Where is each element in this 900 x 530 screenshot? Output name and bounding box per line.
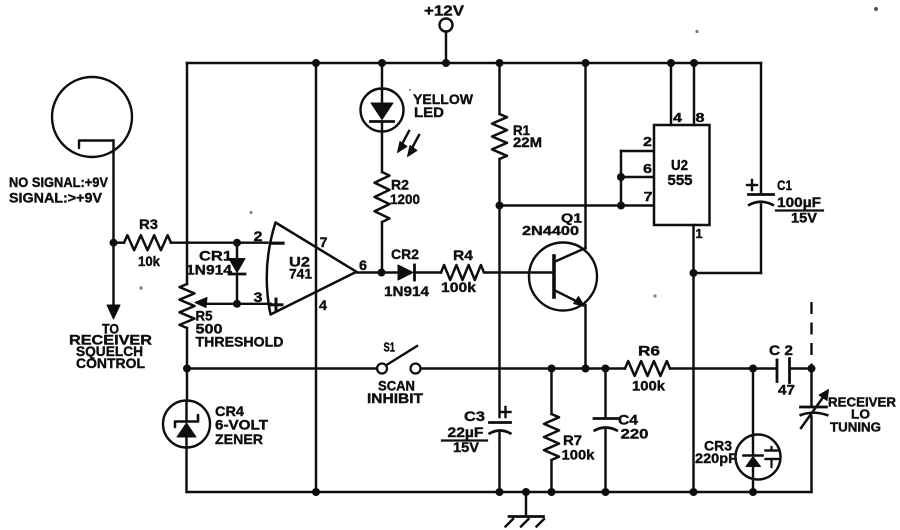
label op-amp minus input — [271, 242, 284, 245]
node R7 bottom at ground rail — [548, 488, 556, 496]
wire arrow to receiver squelch control — [107, 243, 120, 319]
svg-text:10k: 10k — [138, 253, 160, 269]
resistor R7 — [544, 369, 559, 493]
label ZENER — [215, 431, 263, 447]
label pin 8 (555) — [696, 110, 705, 125]
node C2 right junction — [808, 365, 816, 373]
svg-text:1: 1 — [696, 226, 703, 241]
svg-text:ZENER: ZENER — [215, 431, 263, 447]
svg-text:NO SIGNAL:+9V: NO SIGNAL:+9V — [9, 174, 109, 190]
power terminal +12V — [440, 19, 453, 64]
label pin 2 — [254, 228, 263, 244]
label 220 (C4) — [621, 426, 649, 442]
svg-text:47: 47 — [778, 382, 795, 398]
diode CR1 — [229, 243, 245, 304]
node R7 top at scan row — [548, 365, 556, 373]
svg-text:100k: 100k — [441, 279, 476, 295]
svg-text:741: 741 — [289, 266, 312, 282]
label LED light arrow 2 — [408, 135, 420, 157]
label 100k (R6) — [632, 378, 665, 394]
label CR1 — [199, 248, 232, 264]
variable capacitor receiver LO tuning — [800, 369, 829, 493]
svg-text:22M: 22M — [513, 134, 542, 150]
wire op-amp pin3 input — [195, 298, 271, 308]
node LED top at +12V rail — [378, 59, 386, 67]
label Q1 — [561, 211, 582, 226]
svg-text:TUNING: TUNING — [830, 420, 881, 435]
label LED — [414, 104, 444, 120]
node op-amp pin7 at +12V rail — [312, 59, 320, 67]
node C4 top at scan row — [602, 365, 610, 373]
resistor R2 — [375, 172, 390, 273]
node CR3 bottom at ground rail — [749, 488, 757, 496]
resistor R3 — [114, 235, 268, 250]
node 555 pin1 at ground rail — [690, 488, 698, 496]
label C1 — [777, 178, 792, 193]
svg-text:R4: R4 — [453, 247, 473, 263]
label SQUELCH — [76, 344, 143, 359]
label LO — [851, 407, 870, 422]
wire dashed line to receiver LO — [810, 302, 812, 369]
svg-text:4: 4 — [673, 110, 683, 125]
wire bottom ground rail — [187, 491, 812, 493]
node 555 pin1/C1 junction — [690, 269, 698, 277]
node R1 top at +12V rail — [496, 59, 504, 67]
label C1 plus polarity — [747, 180, 757, 190]
svg-text:220: 220 — [621, 426, 649, 442]
svg-text:SIGNAL:>+9V: SIGNAL:>+9V — [9, 190, 103, 206]
label 555 — [668, 173, 693, 189]
label pin 4 (555) — [673, 110, 683, 125]
svg-text:15V: 15V — [453, 439, 480, 455]
svg-text:8: 8 — [696, 110, 705, 125]
label R1 — [513, 122, 530, 138]
varactor diode CR3 — [736, 369, 781, 493]
label 500 — [196, 321, 223, 337]
svg-text:220pF: 220pF — [695, 450, 737, 466]
node R5 bottom / scan row junction — [183, 365, 191, 373]
svg-text:S1: S1 — [384, 340, 396, 355]
label CR2 — [391, 246, 419, 262]
label C3 — [464, 408, 485, 424]
resistor R1 — [492, 63, 507, 206]
label CONTROL — [76, 356, 145, 371]
svg-text:2: 2 — [254, 228, 263, 244]
label SIGNAL:>+9V — [9, 190, 103, 206]
label 100k (R4) — [441, 279, 476, 295]
label pin 7 (555) — [644, 189, 653, 204]
label pin 4 — [319, 297, 327, 313]
wire 555 pin 1 to ground rail — [692, 225, 694, 492]
connector J1 receiver squelch input — [52, 77, 132, 243]
label INHIBIT — [367, 391, 424, 406]
node 555 pin 2-6-7 junction — [617, 202, 625, 210]
label U2 (op-amp) — [289, 254, 310, 270]
label 6-VOLT — [215, 417, 268, 433]
label pin 6 (555) — [643, 161, 652, 176]
svg-text:C1: C1 — [777, 178, 792, 193]
label R2 — [391, 177, 409, 193]
svg-text:1N914: 1N914 — [384, 283, 429, 299]
label 1200 — [390, 191, 420, 207]
wire +12V top supply rail — [187, 62, 761, 64]
label pin 7 — [320, 234, 328, 250]
label TO — [102, 322, 119, 337]
label 2N4400 — [522, 223, 579, 238]
label CR4 — [215, 403, 244, 419]
node squelch input junction — [110, 239, 118, 247]
svg-text:THRESHOLD: THRESHOLD — [196, 335, 284, 350]
label R3 — [139, 216, 158, 232]
wire scan speckles — [139, 7, 878, 298]
wire 555 pin2/6 link — [621, 151, 654, 206]
op-amp U2 741 triangle — [267, 223, 357, 315]
svg-text:2: 2 — [643, 134, 652, 149]
svg-text:2N4400: 2N4400 — [522, 223, 579, 238]
label YELLOW — [413, 91, 474, 107]
label 100uF — [776, 195, 823, 211]
svg-text:15V: 15V — [791, 211, 817, 226]
node CR1 cathode junction — [233, 300, 241, 308]
svg-text:4: 4 — [319, 297, 327, 313]
label 22uF — [442, 424, 487, 441]
label 22M — [513, 134, 542, 150]
label NO SIGNAL:+9V — [9, 174, 109, 190]
node 555 pin8 at +12V rail — [690, 59, 698, 67]
LED yellow indicator — [361, 63, 404, 172]
label 1N914 (CR1) — [186, 262, 232, 278]
label C4 — [618, 412, 638, 428]
capacitor C3 22uF — [489, 423, 512, 493]
capacitor C1 100uF — [694, 63, 775, 273]
node 555 pin4 at +12V rail — [667, 59, 675, 67]
svg-text:LED: LED — [414, 104, 444, 120]
label op-amp plus input — [270, 299, 282, 311]
svg-text:INHIBIT: INHIBIT — [367, 391, 424, 406]
wire op-amp supply pins 7 and 4 vertical — [315, 63, 317, 492]
svg-text:1N914: 1N914 — [186, 262, 232, 278]
transistor Q1 2N4400 — [529, 63, 597, 369]
label 47 — [778, 382, 795, 398]
node CR1 anode junction — [233, 239, 241, 247]
label 15V (C1) — [791, 211, 817, 226]
label pin 6 — [359, 257, 367, 273]
node CR3 top at scan row — [749, 365, 757, 373]
node +12V at top rail — [442, 59, 450, 67]
svg-text:R3: R3 — [139, 216, 158, 232]
svg-text:100k: 100k — [632, 378, 665, 394]
node Q1 collector at +12V rail — [582, 59, 590, 67]
label LED light arrow 1 — [398, 131, 410, 153]
node C3 bottom at ground rail — [496, 488, 504, 496]
label R5 — [196, 308, 213, 324]
resistor R6 — [625, 361, 776, 376]
label pin 3 — [254, 289, 263, 305]
label 220pF — [695, 450, 737, 466]
wire left branch from +12V rail down to R5 — [186, 63, 188, 284]
switch S1 scan inhibit — [377, 346, 421, 374]
svg-text:1200: 1200 — [390, 191, 420, 207]
label C3 plus polarity — [501, 407, 511, 417]
node R2 bottom at op-amp output — [378, 269, 386, 277]
label R4 — [453, 247, 473, 263]
label pin 1 (555) — [696, 226, 703, 241]
svg-text:100µF: 100µF — [777, 195, 821, 210]
svg-text:22µF: 22µF — [448, 424, 484, 440]
wire R1/C3 vertical down to C3 — [498, 206, 500, 418]
node C4 bottom at ground rail — [602, 488, 610, 496]
svg-text:100k: 100k — [562, 447, 595, 463]
svg-text:555: 555 — [668, 173, 693, 189]
resistor R4 — [441, 265, 554, 280]
label S1 — [384, 340, 396, 355]
label 1N914 (CR2) — [384, 283, 429, 299]
potentiometer R5 — [180, 284, 195, 369]
capacitor C2 47 — [777, 359, 812, 383]
svg-text:CR2: CR2 — [391, 246, 419, 262]
node 555 pin6 junction — [617, 173, 625, 181]
label 741 — [289, 266, 312, 282]
label TUNING — [830, 420, 881, 435]
wire scan row left segment — [187, 367, 377, 369]
wire scan row middle segment — [421, 367, 626, 369]
label R7 — [563, 432, 582, 448]
diode CR2 — [398, 265, 441, 280]
wire 555 pin 4 — [670, 63, 672, 125]
svg-text:6: 6 — [359, 257, 367, 273]
IC U2 555 timer body — [654, 125, 710, 225]
svg-text:U2: U2 — [671, 158, 688, 174]
node Q1 emitter at scan row — [582, 365, 590, 373]
label U2 (555) — [671, 158, 688, 174]
label pin 2 (555) — [643, 134, 652, 149]
label R6 — [638, 343, 660, 359]
label THRESHOLD — [196, 335, 284, 350]
capacitor C4 220 — [594, 369, 619, 493]
label SCAN — [378, 379, 415, 394]
label 10k — [138, 253, 160, 269]
wire 555 pins row — [500, 204, 655, 206]
svg-text:R6: R6 — [638, 343, 660, 359]
wire 555 pin 8 — [693, 63, 695, 125]
svg-text:C3: C3 — [464, 408, 485, 424]
label RECEIVER (squelch) — [69, 333, 152, 348]
node R1 bottom junction — [496, 202, 504, 210]
svg-text:+12V: +12V — [424, 3, 464, 20]
svg-text:C 2: C 2 — [769, 342, 793, 358]
ground — [506, 492, 545, 527]
label 100k (R7) — [562, 447, 595, 463]
svg-text:CONTROL: CONTROL — [76, 356, 145, 371]
label CR3 — [704, 438, 732, 454]
svg-text:7: 7 — [320, 234, 328, 250]
svg-text:7: 7 — [644, 189, 653, 204]
label RECEIVER (LO) — [828, 395, 897, 410]
label C2 — [769, 342, 793, 358]
node op-amp pin4 at ground rail — [312, 488, 320, 496]
wire op-amp output row — [357, 271, 398, 273]
svg-text:6: 6 — [643, 161, 652, 176]
label 15V (C3) — [453, 439, 480, 455]
zener diode CR4 6-volt — [163, 369, 210, 493]
node ground stub at rail — [522, 488, 530, 496]
label +12V — [424, 3, 464, 20]
